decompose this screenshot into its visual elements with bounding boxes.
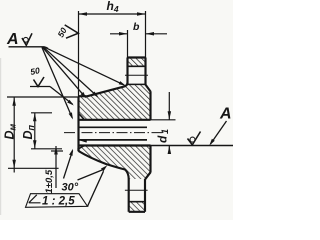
svg-text:A: A xyxy=(6,31,19,48)
svg-text:b: b xyxy=(133,21,140,33)
svg-text:Dп: Dп xyxy=(21,124,36,139)
svg-text:30°: 30° xyxy=(62,182,79,194)
svg-text:50: 50 xyxy=(55,26,68,39)
svg-text:Dм: Dм xyxy=(3,123,18,139)
svg-text:d: d xyxy=(156,135,170,143)
svg-text:1±0,5: 1±0,5 xyxy=(44,169,55,193)
svg-text:1 : 2,5: 1 : 2,5 xyxy=(42,196,75,208)
svg-text:h4: h4 xyxy=(107,0,119,14)
svg-text:1: 1 xyxy=(160,129,170,134)
svg-text:50: 50 xyxy=(29,65,41,77)
svg-text:A: A xyxy=(219,106,232,123)
